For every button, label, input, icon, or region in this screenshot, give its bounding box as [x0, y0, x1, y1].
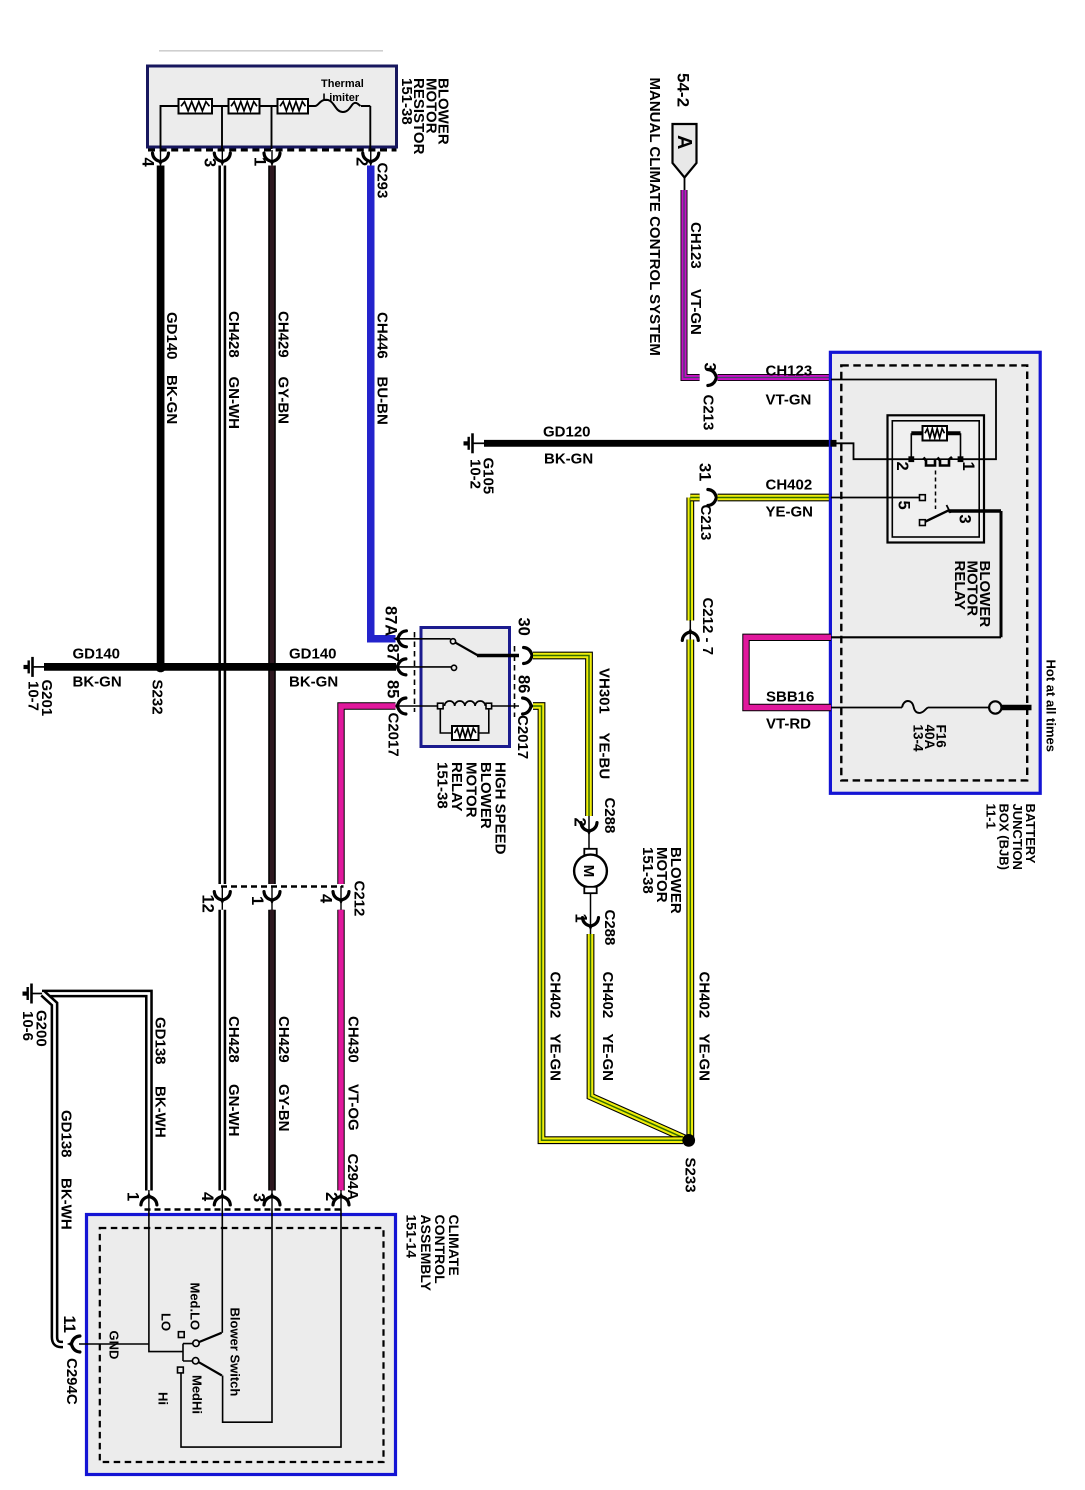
climate control assembly box: [87, 1215, 396, 1475]
relay actuator dashed line: [935, 471, 937, 510]
wire GD140 BK-GN horizontal: [44, 663, 396, 671]
blower motor relay outer box: [888, 415, 985, 542]
svg-text:C288: C288: [601, 910, 618, 946]
connector C294A dashed line: [145, 1208, 345, 1211]
svg-text:C212 - 7: C212 - 7: [699, 598, 716, 656]
svg-text:GN-WH: GN-WH: [225, 377, 242, 430]
GD120 stub inside box: [830, 440, 836, 447]
svg-text:GND: GND: [107, 1331, 122, 1360]
wire CH123 VT-GN horizontal: [718, 374, 832, 381]
pin 1 arrow: [264, 153, 280, 166]
battery junction box: [830, 352, 1040, 793]
relay coil: [445, 701, 486, 706]
wire between coil pins: [914, 458, 958, 460]
svg-text:MedHi: MedHi: [190, 1375, 205, 1414]
svg-text:85: 85: [384, 680, 402, 698]
fuse F16 lead right: [928, 707, 989, 709]
svg-text:30: 30: [515, 618, 533, 636]
svg-text:C2017: C2017: [385, 713, 402, 757]
C212 pin 4 arrow: [333, 892, 349, 905]
relay pin 5 lead: [831, 497, 920, 499]
svg-text:Hot at all times: Hot at all times: [1044, 660, 1059, 752]
resistor R2: [229, 99, 260, 114]
svg-text:S232: S232: [149, 680, 166, 715]
thermal limiter element: [308, 100, 361, 112]
pin 86 arrow: [523, 698, 536, 714]
svg-text:151-38: 151-38: [434, 762, 451, 809]
svg-text:VT-RD: VT-RD: [766, 716, 811, 733]
svg-text:4: 4: [198, 1192, 216, 1202]
svg-text:C294A: C294A: [344, 1154, 361, 1201]
wire CH429 GY-BN upper: [268, 166, 276, 885]
svg-text:CH430: CH430: [345, 1016, 362, 1063]
wire CH402 YE-GN from motor: [591, 934, 689, 1140]
svg-text:Limiter: Limiter: [323, 92, 360, 104]
C294A pin 3 arrow: [264, 1192, 280, 1205]
blower motor resistor box: [148, 66, 397, 147]
pin 4 line inside climate box: [221, 1210, 223, 1333]
svg-text:87: 87: [384, 644, 402, 662]
svg-text:CH428: CH428: [225, 1016, 242, 1063]
C294A pin 2 arrow: [333, 1192, 349, 1205]
svg-text:151-38: 151-38: [639, 847, 656, 894]
relay coil pin 2 terminal: [908, 456, 914, 462]
svg-text:31: 31: [696, 463, 714, 481]
svg-text:GY-BN: GY-BN: [275, 1084, 292, 1132]
svg-text:VT-GN: VT-GN: [687, 289, 704, 335]
svg-text:CH446: CH446: [374, 312, 391, 359]
wire CH429 GY-BN lower: [268, 910, 276, 1191]
blower switch lower blade: [199, 1362, 222, 1375]
pin 1 line inside climate box: [149, 1210, 193, 1362]
connector C2017 right dashed line: [514, 646, 516, 717]
svg-text:CH123: CH123: [687, 222, 704, 269]
svg-text:GD140: GD140: [73, 646, 121, 663]
svg-text:CH429: CH429: [275, 1016, 292, 1063]
pin 87 arrow: [393, 659, 406, 675]
battery feed thick lead: [1002, 705, 1032, 711]
wire CH446 BU-BN: [371, 166, 396, 639]
relay pin 3 thick lead: [949, 509, 1002, 513]
svg-text:A: A: [673, 135, 695, 149]
svg-text:1: 1: [124, 1192, 142, 1201]
svg-text:2: 2: [893, 462, 911, 471]
pin 2 arrow: [363, 153, 379, 166]
svg-text:GN-WH: GN-WH: [225, 1084, 242, 1137]
wire inside resistor box: [161, 106, 371, 149]
blower motor M1 bottom brush: [584, 887, 596, 893]
svg-text:C294C: C294C: [63, 1358, 80, 1405]
splice S232: [155, 662, 166, 673]
svg-text:1: 1: [251, 157, 269, 166]
svg-text:2: 2: [353, 157, 371, 166]
C212 pin 1 arrow: [264, 892, 280, 905]
svg-text:C213: C213: [700, 395, 717, 431]
resistor R3: [278, 99, 309, 114]
svg-text:1: 1: [248, 896, 266, 905]
relay switch contact 87: [451, 665, 456, 670]
wire CH402 YE-GN into BJB: [718, 494, 832, 502]
svg-text:SBB16: SBB16: [766, 689, 814, 706]
svg-text:CH402: CH402: [766, 477, 813, 494]
faint scan line above resistor box: [159, 50, 383, 52]
LO contact: [178, 1332, 184, 1338]
pin 2 line inside climate box: [181, 1210, 341, 1448]
svg-text:10-2: 10-2: [467, 459, 484, 489]
C213 pin 31 arrow: [708, 490, 721, 506]
svg-text:GD140: GD140: [163, 312, 180, 360]
relay output to SBB16 lead: [831, 636, 1001, 638]
climate box inner dashed border: [100, 1228, 384, 1462]
C294A pin 4 arrow: [214, 1192, 230, 1205]
svg-text:Thermal: Thermal: [321, 78, 364, 90]
wire CH402 YE-GN lower vertical: [686, 640, 694, 1141]
relay switch blade: [926, 510, 950, 521]
pin 11 GND line: [79, 1343, 149, 1345]
wire GD138 BK-WH right branch: [42, 994, 149, 1191]
wire CH402 YE-GN from pin 86: [533, 706, 683, 1140]
relay switch pivot contact: [920, 520, 926, 526]
connector A stem: [684, 178, 686, 192]
svg-text:YE-GN: YE-GN: [696, 1034, 713, 1082]
C294A pin 1 arrow: [141, 1192, 157, 1205]
svg-text:2: 2: [322, 1192, 340, 1201]
svg-text:BK-WH: BK-WH: [58, 1178, 75, 1230]
svg-text:3: 3: [201, 158, 219, 167]
svg-text:CH402: CH402: [599, 972, 616, 1019]
C212 - 7 arrow: [682, 627, 698, 640]
svg-text:BK-WH: BK-WH: [152, 1086, 169, 1138]
fuse F16 element: [902, 701, 928, 713]
svg-text:YE-BU: YE-BU: [596, 733, 613, 780]
svg-text:Med.LO: Med.LO: [188, 1283, 203, 1331]
svg-text:4: 4: [139, 158, 157, 168]
relay blade end tick: [947, 505, 951, 513]
pin 3 arrow: [214, 153, 230, 166]
svg-text:M: M: [580, 865, 597, 878]
svg-text:C293: C293: [374, 163, 391, 199]
svg-text:GD120: GD120: [543, 424, 591, 441]
high speed blower motor relay box: [421, 628, 510, 747]
ground G201: [33, 666, 44, 668]
svg-text:3: 3: [701, 363, 719, 372]
resistor R1: [179, 99, 213, 114]
blower switch lower pivot: [192, 1358, 198, 1364]
svg-text:BK-GN: BK-GN: [163, 375, 180, 424]
relay output down lead: [1000, 511, 1003, 637]
blower motor relay coil: [924, 457, 953, 466]
svg-text:BK-GN: BK-GN: [544, 451, 593, 468]
connector C2017 left dashed line: [414, 632, 416, 712]
wire CH402 YE-GN corner at C213: [690, 494, 699, 502]
relay coil right square: [486, 703, 492, 709]
relay coil left square: [438, 703, 444, 709]
svg-text:Blower Switch: Blower Switch: [228, 1308, 243, 1397]
svg-text:54-2: 54-2: [674, 73, 693, 107]
svg-text:CH402: CH402: [547, 972, 564, 1019]
relay pin 5 contact: [920, 495, 926, 501]
svg-text:5: 5: [895, 501, 913, 510]
svg-text:GD138: GD138: [58, 1110, 75, 1158]
svg-text:BU-BN: BU-BN: [374, 377, 391, 425]
C213 pin 3 arrow: [708, 370, 721, 386]
wire CH428 GN-WH lower: [218, 910, 226, 1191]
svg-text:VT-OG: VT-OG: [345, 1084, 362, 1131]
wire from GD120 to relay pin 2: [831, 443, 909, 459]
blower motor relay inner box: [892, 421, 979, 537]
svg-text:BK-GN: BK-GN: [289, 674, 338, 691]
svg-text:C2017: C2017: [514, 715, 531, 759]
svg-text:C212: C212: [351, 881, 368, 917]
svg-text:GY-BN: GY-BN: [274, 377, 291, 425]
svg-text:C288: C288: [601, 798, 618, 834]
svg-text:YE-GN: YE-GN: [766, 504, 814, 521]
blower motor M1 body: [574, 855, 607, 888]
relay coil pin 1 terminal: [958, 456, 964, 462]
fuse F16 lead left: [831, 707, 902, 709]
wire CH123 VT-GN vertical: [684, 190, 700, 378]
svg-text:3: 3: [250, 1193, 268, 1202]
battery feed terminal circle: [989, 701, 1001, 713]
wire from CH123 to relay pin 1: [831, 380, 996, 460]
wire CH430 VT-OG upper: [341, 706, 396, 884]
svg-text:VH301: VH301: [596, 668, 613, 714]
pin 3 line inside climate box: [223, 1210, 272, 1423]
svg-text:GD138: GD138: [152, 1017, 169, 1065]
svg-text:CH402: CH402: [696, 972, 713, 1019]
relay resistor verticals: [911, 433, 960, 457]
wire CH428 GN-WH upper: [218, 166, 226, 885]
blower switch upper pivot: [193, 1340, 199, 1346]
svg-text:4: 4: [317, 894, 335, 904]
svg-text:Hi: Hi: [156, 1392, 171, 1405]
svg-text:1: 1: [572, 914, 590, 923]
svg-text:1: 1: [959, 462, 977, 471]
svg-text:CH429: CH429: [274, 311, 291, 358]
relay switch blade to pin 30: [455, 643, 478, 656]
wire GD140 BK-GN vertical: [157, 166, 165, 664]
C212 pin 12 arrow: [214, 892, 230, 905]
svg-text:LO: LO: [159, 1313, 174, 1331]
ground G200: [32, 993, 43, 995]
svg-text:CH123: CH123: [766, 363, 813, 380]
wire SBB16 VT-RD: [746, 637, 831, 707]
relay resistor thick leads: [911, 431, 960, 435]
pin 30 thick lead: [477, 654, 519, 658]
svg-text:10-6: 10-6: [19, 1011, 36, 1041]
svg-text:S233: S233: [682, 1158, 699, 1193]
svg-text:C213: C213: [697, 505, 714, 541]
svg-text:13-4: 13-4: [911, 725, 926, 753]
svg-text:YE-GN: YE-GN: [547, 1034, 564, 1082]
svg-text:12: 12: [199, 895, 217, 913]
connector C212 dashed line: [221, 885, 344, 888]
svg-text:CH428: CH428: [225, 311, 242, 358]
C288 pin 1 arrow: [583, 918, 599, 931]
pin 87A arrow: [393, 631, 406, 647]
BJB inner dashed border: [841, 365, 1027, 780]
svg-text:3: 3: [956, 515, 974, 524]
wire VH301 YE-BU: [533, 656, 589, 817]
svg-text:VT-GN: VT-GN: [766, 392, 812, 409]
pin 86 lead: [492, 705, 519, 707]
pin 30 arrow: [524, 648, 537, 664]
off-page connector A: [673, 124, 697, 178]
svg-text:YE-GN: YE-GN: [599, 1034, 616, 1082]
svg-text:151-14: 151-14: [404, 1215, 420, 1259]
wire GD138 BK-WH left branch: [43, 994, 63, 1345]
svg-text:MANUAL CLIMATE CONTROL SYSTEM: MANUAL CLIMATE CONTROL SYSTEM: [646, 78, 663, 356]
C288 pin 2 arrow: [581, 823, 597, 836]
svg-text:BK-GN: BK-GN: [73, 674, 122, 691]
wire CH430 VT-OG lower: [337, 910, 344, 1191]
pin 85 arrow: [393, 698, 406, 714]
svg-text:87A: 87A: [382, 606, 400, 636]
ground G105: [473, 442, 484, 444]
wire GD120 BK-GN: [484, 440, 835, 447]
splice S233: [682, 1134, 695, 1147]
svg-text:GD140: GD140: [289, 646, 337, 663]
pin 4 arrow: [153, 153, 169, 166]
Hi contact: [178, 1367, 184, 1373]
blower motor M1 top brush: [584, 849, 596, 855]
relay switch contact from 87A: [450, 639, 455, 644]
svg-text:10-7: 10-7: [25, 681, 42, 711]
svg-text:11: 11: [60, 1316, 78, 1333]
svg-text:86: 86: [515, 675, 533, 693]
connector C293 dashed line: [148, 149, 397, 152]
blower switch upper blade: [199, 1333, 221, 1342]
C294C pin 11 arrow: [67, 1336, 80, 1352]
relay resistor: [452, 726, 479, 740]
svg-text:RELAY: RELAY: [951, 561, 968, 610]
blower motor relay resistor: [923, 426, 948, 441]
svg-text:2: 2: [571, 818, 589, 827]
wire CH402 YE-GN vertical from C213: [686, 498, 694, 621]
svg-text:151-38: 151-38: [398, 78, 415, 125]
relay resistor leads: [440, 709, 489, 733]
svg-text:11-1: 11-1: [983, 804, 998, 829]
